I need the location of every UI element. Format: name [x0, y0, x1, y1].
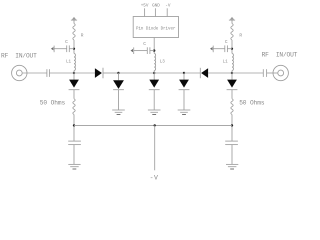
svg-text:GND: GND	[152, 3, 160, 8]
op box U1 Pin Diode Driver	[133, 17, 178, 38]
wire node D to node E	[154, 72, 184, 74]
resistor R3 50 Ohms	[231, 99, 233, 115]
wire C2 to node B	[69, 48, 74, 50]
inductor L1	[74, 54, 75, 71]
svg-text:Pin Diode Driver: Pin Diode Driver	[136, 26, 176, 31]
wire D7 to R3	[231, 90, 233, 99]
driver drive arrow (center)	[131, 49, 134, 52]
node D junction dot	[153, 72, 155, 74]
+V arrow (left bias feed)	[72, 17, 77, 20]
pin GND lead	[154, 8, 156, 16]
node H junction dot	[231, 124, 233, 126]
shunt diode D7	[231, 73, 233, 80]
inductor L3	[154, 54, 155, 71]
wire L3 to node D	[153, 71, 155, 74]
wire C3 to node I	[227, 48, 232, 50]
wire node C to node D	[119, 72, 155, 74]
wire C4 to connector J2	[267, 72, 278, 74]
wire R2 to node G	[73, 115, 75, 142]
wire L2 to node F	[231, 71, 233, 74]
+V arrow (right bias feed)	[230, 17, 235, 20]
wire C7 to ground	[231, 145, 233, 165]
wire arrow to C2	[54, 48, 67, 50]
capacitor C3 (right bias)	[224, 45, 226, 52]
wire node E to D2	[184, 72, 200, 74]
resistor R2 50 Ohms	[73, 99, 75, 115]
driver drive arrow (right)	[210, 47, 213, 50]
wire D5 to ground	[153, 90, 155, 110]
connector J2 (RF coax, right)	[273, 65, 288, 80]
ground (under D4)	[112, 110, 125, 115]
wire D4 to ground	[118, 90, 120, 110]
capacitor C7 (right bypass)	[225, 140, 238, 142]
resistor R1	[73, 24, 75, 41]
svg-text:R: R	[239, 33, 242, 39]
wire R3 to node H	[231, 115, 233, 142]
diode D1 (series, left)	[95, 68, 102, 78]
svg-text:C: C	[143, 41, 146, 47]
svg-text:50 Ohms: 50 Ohms	[40, 100, 66, 107]
wire arrow to C3	[213, 48, 225, 50]
wire C1 to node A	[49, 72, 74, 74]
node B junction dot	[73, 48, 75, 50]
wire D3 to R2	[73, 90, 75, 99]
ground (under C6)	[68, 164, 80, 169]
node G junction dot	[73, 124, 75, 126]
svg-text:C: C	[225, 39, 228, 45]
node C junction dot	[117, 72, 119, 74]
wire node A to D1	[74, 72, 95, 74]
shunt diode D4	[118, 73, 120, 80]
svg-text:-V: -V	[150, 174, 159, 181]
node J junction dot	[153, 49, 155, 51]
svg-text:-V: -V	[165, 3, 171, 8]
capacitor C2 (left bias)	[66, 45, 68, 52]
shunt diode D3	[73, 73, 75, 80]
svg-text:50 Ohms: 50 Ohms	[239, 99, 265, 106]
svg-text:RF IN/OUT: RF IN/OUT	[1, 52, 37, 59]
node E junction dot	[183, 72, 185, 74]
wire arrow to R4	[231, 20, 233, 23]
driver drive arrow (left)	[51, 47, 54, 50]
wire U1 to node J	[153, 38, 155, 54]
resistor R4	[231, 24, 233, 41]
capacitor C4 (series, right)	[262, 69, 264, 77]
wire C6 to ground	[73, 145, 75, 165]
wire D6 to ground	[183, 90, 185, 110]
wire J1 to C1	[22, 72, 47, 74]
bus wire node G to node H	[74, 124, 232, 126]
wire D1 to node C	[103, 72, 119, 74]
ground (under D5)	[148, 110, 161, 115]
ground (under C7)	[226, 164, 238, 169]
svg-text:+5V: +5V	[141, 3, 149, 8]
svg-text:R: R	[81, 33, 84, 39]
shunt diode D6	[183, 73, 185, 80]
shunt diode D5	[153, 73, 155, 80]
node A junction dot	[73, 72, 75, 74]
wire node F to C4	[232, 72, 263, 74]
wire R1 to node B	[73, 40, 75, 54]
inductor L2	[232, 54, 233, 71]
wire D2 to node F	[208, 72, 232, 74]
diode D2 (series, right)	[199, 68, 201, 78]
wire C5 to node J	[150, 50, 154, 52]
capacitor C6 (left bypass)	[68, 140, 81, 142]
wire node K to -V	[154, 125, 156, 170]
pin -V lead	[166, 8, 168, 16]
svg-text:RF IN/OUT: RF IN/OUT	[262, 52, 298, 59]
wire arrow to C5	[134, 50, 148, 52]
connector J1 (RF coax, left)	[12, 65, 27, 80]
svg-text:L1: L1	[223, 61, 229, 65]
svg-text:L3: L3	[160, 61, 166, 65]
node I junction dot	[231, 48, 233, 50]
svg-text:C: C	[65, 39, 68, 45]
svg-text:L1: L1	[66, 61, 72, 65]
wire R4 to node I	[231, 40, 233, 54]
pin +5V lead	[144, 8, 146, 16]
wire L1 to node A	[73, 71, 75, 74]
capacitor C5 (center bias)	[146, 47, 148, 54]
capacitor C1 (series, left)	[46, 69, 48, 77]
wire arrow to R1	[73, 20, 75, 23]
node K junction dot	[154, 124, 156, 126]
node F junction dot	[231, 72, 233, 74]
ground (under D6)	[178, 110, 191, 115]
